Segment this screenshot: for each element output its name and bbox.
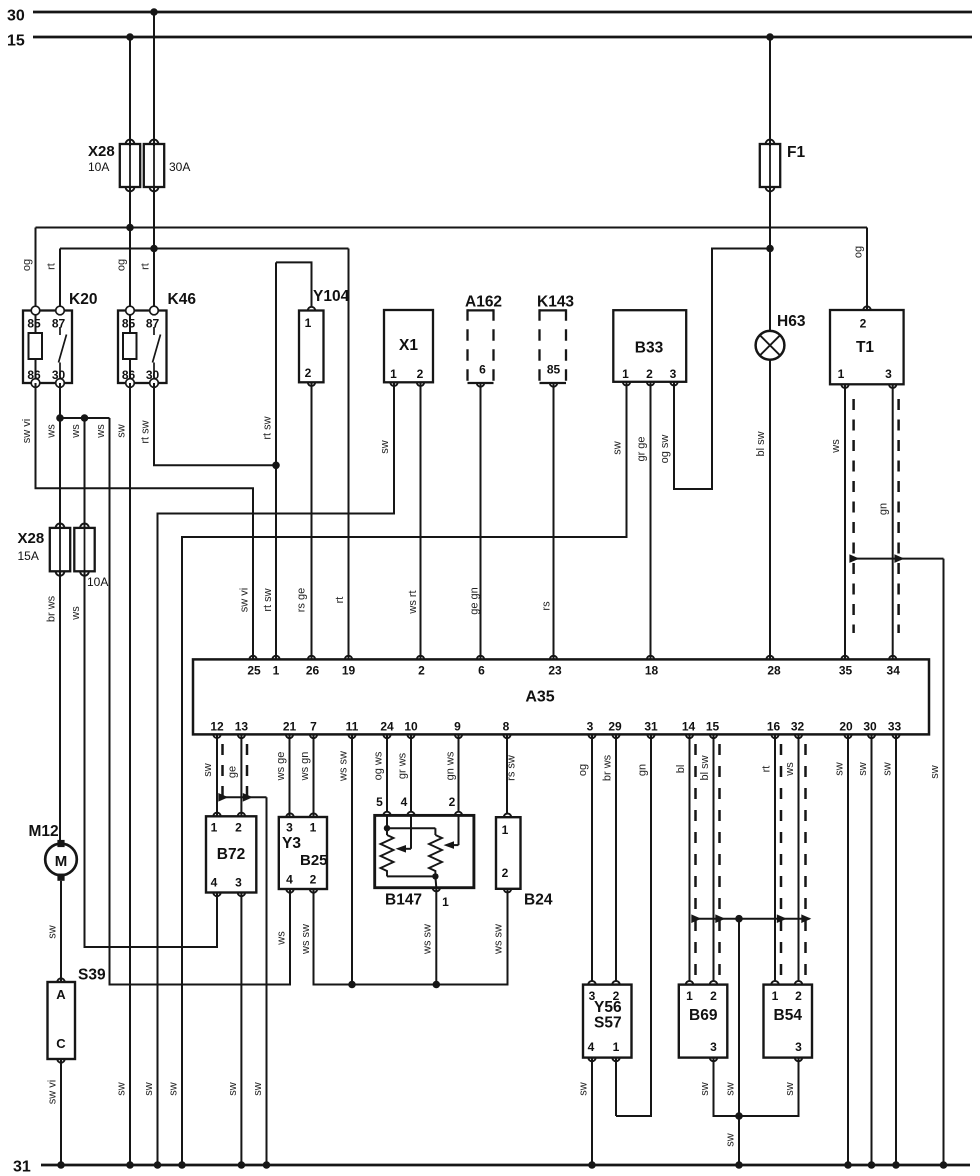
A35 top pin 6 — [477, 656, 485, 678]
svg-text:sw: sw — [116, 424, 128, 438]
svg-text:1: 1 — [622, 367, 629, 381]
svg-text:bl sw: bl sw — [699, 755, 711, 780]
svg-text:A162: A162 — [465, 294, 502, 311]
A35 bottom pin 12 — [210, 720, 224, 739]
svg-text:K46: K46 — [168, 291, 197, 308]
svg-text:Y3: Y3 — [282, 835, 301, 852]
svg-text:34: 34 — [887, 664, 901, 678]
svg-text:4: 4 — [286, 873, 293, 887]
wire B24.2 to sensor-ground rail (ws sw) — [436, 889, 507, 985]
sensor B33 — [613, 310, 686, 385]
svg-text:sw: sw — [47, 925, 59, 939]
svg-text:br ws: br ws — [602, 754, 614, 781]
svg-text:K20: K20 — [69, 291, 97, 308]
A35 bottom pin 8 — [503, 720, 511, 739]
svg-text:1: 1 — [686, 989, 693, 1003]
svg-text:8: 8 — [503, 720, 510, 734]
svg-text:og ws: og ws — [373, 751, 385, 780]
svg-text:3: 3 — [286, 821, 293, 835]
svg-text:sw: sw — [116, 1082, 128, 1096]
A35 bottom pin 14 — [682, 720, 696, 739]
svg-text:C: C — [56, 1036, 66, 1051]
svg-text:sw: sw — [784, 1082, 796, 1096]
svg-text:4: 4 — [588, 1040, 595, 1054]
svg-text:1: 1 — [273, 664, 280, 678]
A35 bottom pin 11 — [346, 720, 359, 739]
svg-text:13: 13 — [235, 720, 249, 734]
svg-text:2: 2 — [502, 866, 509, 880]
svg-text:H63: H63 — [777, 313, 806, 330]
A35 bottom pin 32 — [791, 720, 805, 739]
A35 bottom pin 33 — [888, 720, 902, 739]
svg-text:gn: gn — [878, 503, 890, 515]
svg-text:7: 7 — [310, 720, 317, 734]
svg-text:ws sw: ws sw — [338, 751, 350, 782]
wire A35.32 to B54.2 (ws) — [798, 734, 800, 981]
svg-text:5: 5 — [376, 795, 383, 809]
svg-text:16: 16 — [767, 720, 781, 734]
svg-text:2: 2 — [449, 795, 456, 809]
B147 internal supply wire pin5 — [384, 815, 436, 835]
fuse X28 10A (lower) — [74, 418, 108, 589]
svg-text:ws sw: ws sw — [493, 924, 505, 955]
svg-text:3: 3 — [885, 367, 892, 381]
svg-text:ws sw: ws sw — [300, 924, 312, 955]
svg-text:sw: sw — [834, 762, 846, 776]
svg-text:1: 1 — [310, 821, 317, 835]
pump motor M12 — [45, 840, 77, 881]
wire Y104.1 up-and-over — [276, 262, 312, 306]
svg-text:B54: B54 — [774, 1007, 803, 1024]
connector X1 — [384, 310, 433, 386]
svg-text:sw: sw — [578, 1082, 590, 1096]
svg-text:1: 1 — [838, 367, 845, 381]
svg-text:26: 26 — [306, 664, 320, 678]
svg-text:ge gn: ge gn — [469, 587, 481, 615]
svg-text:X28: X28 — [18, 530, 45, 547]
svg-text:2: 2 — [418, 664, 425, 678]
svg-text:sw: sw — [252, 1082, 264, 1096]
svg-text:ws: ws — [70, 424, 82, 439]
svg-text:sw: sw — [699, 1082, 711, 1096]
A35 top pin 34 — [887, 656, 901, 678]
valve Y3 / sensor B25 — [279, 813, 328, 892]
shield collector line B69/B54 — [691, 914, 811, 923]
wire K46.86 sw to bus31 — [126, 383, 134, 1169]
fuse F1 — [760, 140, 780, 192]
wire A35.8 to B24.1 (rs sw) — [506, 734, 508, 813]
svg-text:sw vi: sw vi — [47, 1080, 59, 1104]
svg-text:A35: A35 — [525, 689, 554, 706]
svg-text:30: 30 — [52, 368, 66, 382]
label 30A — [169, 160, 190, 174]
svg-text:6: 6 — [479, 363, 486, 377]
svg-text:sw: sw — [143, 1082, 155, 1096]
svg-text:sw: sw — [725, 1133, 737, 1147]
wire X1.2 to A35 pin2 (ws rt) — [420, 382, 422, 659]
fuse X28 30A — [144, 140, 164, 192]
svg-text:4: 4 — [401, 795, 408, 809]
svg-text:sw: sw — [612, 441, 624, 455]
svg-text:21: 21 — [283, 720, 297, 734]
A35 bottom pin 21 — [283, 720, 297, 739]
svg-text:85: 85 — [547, 363, 561, 377]
svg-text:S39: S39 — [78, 967, 106, 984]
svg-text:1: 1 — [502, 823, 509, 837]
svg-text:Y104: Y104 — [313, 288, 350, 305]
wire K46.30 rt-sw to junction with Y104.1 — [154, 383, 276, 465]
B147 wiper from pin2 — [444, 815, 459, 849]
wire A35.13 to B72.2 (ge) — [240, 734, 242, 816]
svg-text:M12: M12 — [29, 823, 59, 840]
shield dashed line pin15 — [718, 744, 721, 977]
svg-text:1: 1 — [442, 895, 449, 909]
svg-text:3: 3 — [710, 1040, 717, 1054]
svg-text:31: 31 — [13, 1159, 31, 1176]
wire A35.31 gn to Y56.1 — [616, 734, 651, 1116]
svg-text:M: M — [55, 853, 68, 870]
wire B25.2 to sensor-ground rail (ws sw) — [314, 889, 437, 985]
svg-text:T1: T1 — [856, 339, 874, 356]
wire A35.24 to B147.5 (og ws) — [386, 734, 388, 811]
wire H63 to A35 pin28 (bl sw) — [769, 360, 771, 659]
svg-text:1: 1 — [390, 367, 397, 381]
sensor B24 — [496, 814, 521, 893]
svg-text:87: 87 — [52, 317, 66, 331]
svg-text:4: 4 — [211, 876, 218, 890]
wire A35.14 to B69.1 (bl) — [689, 734, 691, 981]
wire bus30 to fuse X28/30A — [150, 8, 158, 146]
A35 bottom pin 31 — [644, 720, 658, 739]
wire Y56.1 to A35.31 rail — [615, 1058, 617, 1116]
A35 bottom pin 3 — [587, 720, 596, 739]
bus 31 ground line — [13, 1159, 970, 1176]
A35 top pin 19 — [342, 656, 356, 678]
wire B54.3 sw to ground junction — [739, 1058, 799, 1116]
svg-text:sw: sw — [725, 1082, 737, 1096]
svg-text:24: 24 — [380, 720, 394, 734]
svg-text:ws gn: ws gn — [299, 752, 311, 782]
wire B33.3 og-sw to F1 output — [674, 245, 774, 489]
svg-text:30A: 30A — [169, 160, 190, 174]
svg-text:32: 32 — [791, 720, 805, 734]
wire A35.16 to B54.1 (rt) — [774, 734, 776, 981]
svg-text:1: 1 — [613, 1040, 620, 1054]
sensor B72 — [206, 813, 256, 897]
control unit A162 (dashed) — [468, 309, 494, 386]
fuse X28 15A (lower left) — [50, 524, 70, 576]
B147 wiper from pin4 — [396, 815, 412, 852]
svg-text:18: 18 — [645, 664, 659, 678]
A35 bottom pin 30 — [863, 720, 877, 739]
wire T1.3 gn to A35 pin34 — [892, 384, 894, 659]
svg-text:rt: rt — [761, 766, 773, 773]
svg-text:ws: ws — [46, 424, 58, 439]
svg-text:29: 29 — [608, 720, 622, 734]
shield dashed line B72 left — [221, 744, 224, 806]
svg-text:Y56: Y56 — [594, 999, 622, 1016]
A35 bottom pin 24 — [380, 720, 394, 739]
wire F1 to lamp H63 — [769, 187, 771, 331]
label X28 15A (lower) — [18, 530, 45, 563]
shield dashed line T1 right — [897, 399, 900, 633]
A35 top pin 26 — [306, 656, 320, 678]
svg-text:sw: sw — [168, 1082, 180, 1096]
wire K20.30 branch to B25.4 (ws) — [110, 418, 291, 985]
svg-text:S57: S57 — [594, 1015, 622, 1032]
fuse X28 10A (left top) — [120, 140, 140, 192]
svg-text:sw: sw — [929, 765, 941, 779]
svg-text:gr ge: gr ge — [636, 436, 648, 461]
wire rt rail y=248 from K20.87 to A35 pin19 — [60, 249, 349, 660]
svg-text:ge: ge — [227, 766, 239, 778]
svg-text:ws: ws — [276, 931, 288, 946]
svg-text:gn: gn — [637, 764, 649, 776]
wire A35.7 to B25.1 (ws gn) — [313, 734, 315, 817]
wire og rail y=227 from K20.85 to T1.2 — [36, 228, 868, 312]
wire A35.21 to B25.3 (ws ge) — [289, 734, 291, 817]
wire A35.15 to B69.2 (bl sw) — [713, 734, 715, 981]
wire K143.85 to A35 pin23 (rs) — [553, 383, 555, 659]
wire A35.3 to Y56.3 (og) — [591, 734, 593, 981]
svg-text:ws: ws — [95, 424, 107, 439]
svg-text:og: og — [116, 259, 128, 271]
sensor B147 (double potentiometer) — [375, 812, 474, 892]
svg-text:2: 2 — [417, 367, 424, 381]
svg-text:B69: B69 — [689, 1007, 718, 1024]
svg-text:30: 30 — [863, 720, 877, 734]
svg-text:X1: X1 — [399, 337, 418, 354]
shield collector line B72 to ground — [218, 793, 270, 1169]
wire fuse X28/10A to K46.85 with junction to og rail — [126, 187, 134, 311]
wire fuse 10A to B72.4 (ws) — [85, 571, 218, 947]
A35 top pin 28 — [766, 656, 781, 678]
svg-text:og: og — [21, 259, 33, 271]
wire B147.1 to sensor-ground rail (ws sw) — [433, 888, 441, 989]
valve Y56 / switch S57 — [583, 981, 632, 1061]
lamp H63 — [756, 331, 785, 360]
wire B72.3 sw to bus31 — [238, 893, 246, 1169]
A35 bottom pin 7 — [310, 720, 317, 739]
svg-text:sw: sw — [202, 763, 214, 777]
svg-text:15: 15 — [7, 33, 25, 50]
wire Y104.2 to A35 pin26 (rs ge) — [311, 382, 313, 659]
svg-text:ws: ws — [70, 606, 82, 621]
svg-text:B24: B24 — [524, 892, 553, 909]
A35 bottom pin 20 — [839, 720, 853, 739]
svg-text:A: A — [56, 987, 66, 1002]
svg-text:2: 2 — [235, 821, 242, 835]
shield dashed line pin14 — [694, 744, 697, 977]
svg-text:10A: 10A — [87, 575, 108, 589]
A35 top pin 35 — [839, 656, 853, 678]
shield dashed line T1 left — [852, 399, 855, 633]
svg-text:sw: sw — [227, 1082, 239, 1096]
shield dashed line pin32 — [804, 744, 807, 977]
wire K20.86 sw-vi to A35 pin25 — [36, 383, 254, 659]
A35 bottom pin 13 — [235, 720, 249, 739]
wire X1.1 sw to bus31 — [154, 382, 394, 1168]
svg-text:gr ws: gr ws — [397, 752, 409, 779]
A35 top pin 2 — [417, 656, 425, 678]
wire A35.30 sw to bus31 — [868, 734, 876, 1168]
svg-text:25: 25 — [247, 664, 261, 678]
svg-text:86: 86 — [122, 368, 136, 382]
svg-text:3: 3 — [587, 720, 594, 734]
A35 top pin 23 — [548, 656, 562, 678]
svg-text:30: 30 — [7, 8, 25, 25]
wire shield drain to bus31 with B69/B54 ground junction — [735, 919, 743, 1169]
svg-text:ws: ws — [830, 439, 842, 454]
wire K20.30 down to fuse X28/15A — [59, 383, 61, 529]
A35 bottom pin 16 — [767, 720, 781, 739]
svg-text:20: 20 — [839, 720, 853, 734]
A35 bottom pin 10 — [404, 720, 418, 739]
svg-text:ws sw: ws sw — [422, 924, 434, 955]
svg-text:6: 6 — [478, 664, 485, 678]
svg-text:sw vi: sw vi — [21, 419, 33, 443]
svg-text:rt: rt — [140, 263, 152, 270]
svg-text:35: 35 — [839, 664, 853, 678]
svg-text:11: 11 — [346, 720, 359, 734]
sensor B69 — [679, 981, 728, 1061]
svg-text:rt sw: rt sw — [262, 416, 274, 439]
svg-text:X28: X28 — [88, 143, 115, 160]
A35 top pin 18 — [645, 656, 659, 678]
svg-text:sw: sw — [882, 762, 894, 776]
svg-text:bl: bl — [675, 765, 687, 774]
wire K20.30 ws branch rail y=418 — [56, 414, 109, 422]
svg-text:3: 3 — [235, 876, 242, 890]
wire B33.2 to A35 pin18 (gr ge) — [650, 382, 652, 659]
wire A35.33 sw to bus31 — [892, 734, 900, 1168]
svg-text:sw: sw — [379, 440, 391, 454]
svg-text:F1: F1 — [787, 144, 805, 161]
A35 bottom pin 9 — [454, 720, 462, 739]
svg-text:12: 12 — [210, 720, 224, 734]
svg-text:2: 2 — [646, 367, 653, 381]
relay K46 — [118, 306, 167, 387]
svg-text:br ws: br ws — [46, 595, 58, 622]
svg-text:B25: B25 — [300, 852, 328, 869]
wire B33.1 sw to bus31 — [178, 382, 626, 1169]
svg-text:23: 23 — [548, 664, 562, 678]
resistor track left (B147) — [381, 835, 394, 876]
ignition coil T1 — [830, 306, 904, 388]
svg-text:9: 9 — [454, 720, 461, 734]
svg-text:3: 3 — [670, 367, 677, 381]
svg-text:87: 87 — [146, 317, 160, 331]
control unit A35 — [193, 659, 929, 734]
svg-text:rt: rt — [334, 597, 346, 604]
svg-text:10A: 10A — [88, 160, 109, 174]
svg-text:B72: B72 — [217, 846, 245, 863]
wire A35.11 to sensor-ground rail (ws sw) — [348, 734, 356, 988]
wire junction Y104.1/K46.30 down to A35 pin1 — [272, 262, 280, 659]
A35 top pin 1 — [272, 656, 279, 678]
svg-text:33: 33 — [888, 720, 902, 734]
shield dashed line B72 right — [246, 744, 249, 806]
label X28 10A (top) — [88, 143, 115, 174]
bus 15 terminal line — [7, 33, 972, 50]
svg-text:2: 2 — [710, 989, 717, 1003]
svg-text:30: 30 — [146, 368, 160, 382]
svg-text:1: 1 — [211, 821, 218, 835]
svg-text:85: 85 — [122, 317, 136, 331]
bus 30 terminal line — [7, 8, 972, 25]
A35 bottom pin 15 — [706, 720, 720, 739]
svg-text:rs sw: rs sw — [506, 755, 518, 781]
svg-text:3: 3 — [795, 1040, 802, 1054]
svg-text:rt sw: rt sw — [262, 588, 274, 611]
svg-text:og: og — [853, 246, 865, 258]
wire A35.29 to Y56.2 (br ws) — [615, 734, 617, 981]
svg-text:85: 85 — [27, 317, 41, 331]
svg-text:sw: sw — [857, 762, 869, 776]
svg-text:2: 2 — [795, 989, 802, 1003]
svg-text:bl sw: bl sw — [755, 431, 767, 456]
wire M12 to S39 (sw) — [60, 881, 62, 982]
svg-text:2: 2 — [305, 366, 312, 380]
svg-text:28: 28 — [767, 664, 781, 678]
wire bus15 to fuse X28/10A — [126, 33, 134, 146]
svg-text:rs: rs — [541, 601, 553, 611]
svg-text:86: 86 — [27, 368, 41, 382]
switch S39 — [48, 978, 76, 1062]
svg-text:B33: B33 — [635, 340, 664, 357]
wire A35.9 to B147.2 (gn ws) — [458, 734, 460, 811]
svg-text:31: 31 — [644, 720, 658, 734]
wire A35.12 to B72.1 (sw) — [216, 734, 218, 816]
A35 top pin 25 — [247, 656, 261, 678]
wire A35.20 sw to bus31 — [844, 734, 852, 1168]
wire B69.3 sw to ground junction — [714, 1058, 740, 1116]
svg-text:K143: K143 — [537, 294, 574, 311]
B147 internal ground wire to pin1 — [387, 873, 439, 888]
svg-text:rt: rt — [46, 263, 58, 270]
wire A35.10 to B147.4 (gr ws) — [410, 734, 412, 811]
svg-text:sw vi: sw vi — [239, 588, 251, 612]
shield dashed line pin16 — [780, 744, 783, 977]
svg-text:ws: ws — [784, 762, 796, 777]
wire fuse X28/30A to K46.87 with junction to rt rail — [150, 187, 158, 311]
svg-text:1: 1 — [772, 989, 779, 1003]
svg-text:10: 10 — [404, 720, 418, 734]
wire fuse 15A to M12 (br ws) — [59, 571, 61, 844]
sensor B54 — [764, 981, 813, 1061]
svg-text:2: 2 — [310, 873, 317, 887]
relay K143 (dashed) — [540, 309, 567, 386]
svg-text:1: 1 — [305, 316, 312, 330]
svg-text:gn ws: gn ws — [445, 751, 457, 780]
wire Y56.4 sw to bus31 — [588, 1058, 596, 1169]
svg-text:15A: 15A — [18, 549, 39, 563]
svg-text:14: 14 — [682, 720, 696, 734]
svg-text:og: og — [577, 764, 589, 776]
svg-text:rs ge: rs ge — [296, 588, 308, 612]
wire bus15 to fuse F1 — [766, 33, 774, 146]
svg-text:15: 15 — [706, 720, 720, 734]
svg-text:19: 19 — [342, 664, 356, 678]
svg-text:B147: B147 — [385, 892, 422, 909]
svg-text:ws rt: ws rt — [407, 590, 419, 614]
resistor track right (B147) — [429, 835, 442, 876]
svg-text:rt sw: rt sw — [140, 420, 152, 443]
shield collector line T1 to ground — [849, 554, 947, 1168]
solenoid valve Y104 — [299, 307, 324, 386]
wire A162.6 to A35 pin6 (ge gn) — [480, 383, 482, 659]
wire T1.1 ws to A35 pin35 — [844, 384, 846, 659]
